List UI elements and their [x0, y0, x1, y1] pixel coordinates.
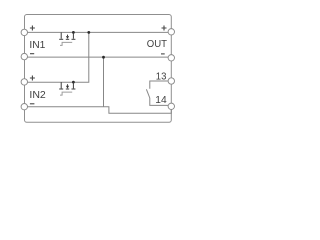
terminal IN2+	[21, 79, 27, 85]
gate of Q2	[60, 92, 72, 95]
polarity mark IN2 minus	[30, 103, 35, 105]
wire mid-rail drop to bottom path	[103, 57, 105, 106]
wire IN1- mid rail to OUT-	[24, 56, 171, 59]
relay contact 13-14	[146, 81, 168, 105]
terminal OUT+	[168, 29, 174, 35]
wire IN2+ rail	[24, 32, 89, 82]
polarity mark IN2 plus	[30, 76, 35, 81]
wire IN1+ top rail to OUT+	[24, 31, 171, 33]
node junction dot IN1 rail / IN2 tie	[87, 31, 90, 34]
polarity mark OUT plus	[162, 26, 167, 31]
svg-text:OUT: OUT	[147, 38, 168, 50]
svg-text:IN2: IN2	[29, 89, 46, 101]
terminal OUT-	[168, 55, 174, 61]
terminal IN2-	[21, 104, 27, 110]
svg-text:IN1: IN1	[29, 39, 45, 51]
svg-text:14: 14	[155, 94, 167, 106]
polarity mark IN1 plus	[30, 26, 35, 31]
terminal IN1+	[21, 29, 27, 35]
polarity mark OUT minus	[161, 53, 165, 55]
transistor Q1 (IN1 mosfet)	[59, 32, 75, 39]
module outline box	[25, 15, 172, 123]
polarity mark IN1 minus	[30, 53, 34, 55]
terminal 14	[168, 103, 174, 109]
gate of Q1	[60, 42, 72, 45]
node junction dot IN1 rail / mosfet source	[72, 31, 75, 34]
wire IN2- bottom path to terminal 14	[24, 106, 171, 113]
node junction dot IN2 rail / mosfet source	[72, 81, 75, 84]
terminal 13	[168, 78, 174, 84]
svg-text:13: 13	[156, 71, 167, 83]
transistor Q2 (IN2 mosfet)	[59, 82, 75, 89]
node junction dot mid rail	[102, 56, 105, 59]
terminal IN1-	[21, 53, 27, 59]
